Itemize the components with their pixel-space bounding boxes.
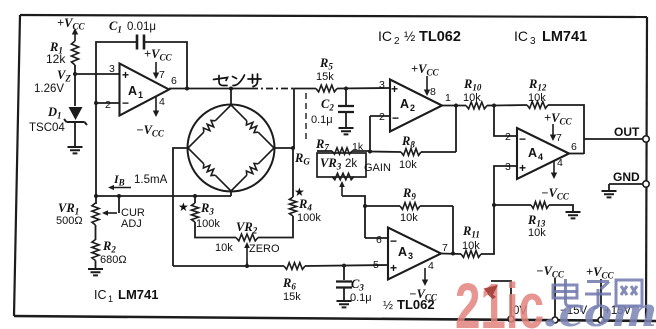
svg-text:8: 8 [430,86,436,98]
svg-text:1: 1 [138,90,143,100]
box RG around VR3 [317,153,366,177]
label Vz value [34,83,64,95]
svg-text:5: 5 [373,259,379,271]
label A3 [398,245,413,261]
pin 6 label A3 [376,234,397,248]
wire Vz to D1 [74,74,76,106]
op-amp A4 [517,128,569,179]
junction R13 tap [492,203,496,207]
svg-text:IC: IC [94,288,107,302]
wire R11 to A4 pin3 [481,166,517,254]
label A2 [400,97,415,113]
op-amp A2 [390,80,442,132]
resistor R7 [332,148,370,154]
wire R12 to A4 output [548,105,584,154]
label VR2 [215,220,280,255]
wire D1 to ground [74,123,76,147]
bridge circle [188,105,275,192]
wire R9 to A3 output [452,206,454,254]
wire bridge top stub [230,89,232,106]
svg-text:680Ω: 680Ω [100,254,127,266]
svg-text:500Ω: 500Ω [56,215,83,227]
label GAIN [364,162,391,174]
svg-text:100k: 100k [297,212,321,224]
svg-text:15k: 15k [316,71,334,83]
svg-text:2: 2 [410,103,415,113]
ground for GND [602,191,617,197]
label R1 [49,40,63,56]
resistor R1 [71,41,78,65]
node +15V [598,317,604,323]
wiper VR2 [244,242,250,266]
resistor R4 [289,197,296,216]
junction Ib rail / riser [94,194,98,198]
watermark glyph wang [616,280,642,306]
bridge arm bottom-left [188,148,231,191]
label -15V [560,305,588,317]
label R7 [315,137,364,153]
wire R13 left [494,204,531,206]
pin 2 label A1 [105,96,129,111]
junction gain node [368,150,372,154]
wire bridge right node [274,147,294,149]
ground for C2 [339,128,354,134]
resistor R9 [365,203,453,210]
svg-text:TL062: TL062 [397,297,435,312]
svg-text:100k: 100k [196,218,220,230]
resistor R11 [461,251,481,258]
svg-text:15k: 15k [283,291,301,303]
svg-text:10k: 10k [399,159,417,171]
svg-text:−: − [390,234,397,248]
power +Vcc top-left label [57,16,85,32]
pin 2 wire A1 [96,102,120,104]
wire A3 pin6 [365,237,388,239]
capacitor C1 [137,35,144,50]
wire OUT [584,138,643,140]
wire +Vcc drop [600,279,602,318]
node -15V [552,317,558,323]
junction C3 tap [342,264,346,268]
svg-text:0.1μ: 0.1μ [311,114,333,126]
node GND [643,181,649,187]
wiper VR3 [339,181,345,196]
label -Vcc bottom [536,264,565,280]
svg-text:10k: 10k [215,242,233,254]
pin 2 label A4 [505,131,526,146]
label R10 [463,77,482,104]
resistor R8 [370,149,456,156]
svg-text:½: ½ [383,298,393,312]
pin 2 wire A2 [370,115,390,117]
svg-text:4: 4 [538,152,543,162]
svg-text:7: 7 [442,242,448,254]
wire R13 to ground [549,205,573,212]
wire A1 output [169,88,251,90]
svg-text:3: 3 [109,63,115,75]
wire VR2 to R4 [258,216,293,238]
node 0V [508,316,514,322]
wire R1 to Vz node [74,65,76,74]
svg-text:10k: 10k [400,212,418,224]
wire Ib rail [95,195,231,197]
svg-text:4: 4 [557,157,563,169]
wire sensor dash-dot [251,88,293,90]
junction VR2 wiper [245,264,249,268]
resistor R3 [191,203,198,222]
wire R5 to A2 pin3 [337,87,390,90]
wire -Vcc drop [554,278,556,318]
label VR3 [320,156,357,172]
junction R3 tap [193,194,197,198]
resistor R10 [466,102,487,109]
wire A1 pin2 feedback riser [96,42,136,103]
svg-text:6: 6 [571,141,577,153]
pin 7 label A3 [442,242,448,254]
bridge arm top-left [188,105,231,148]
svg-text:2k: 2k [345,158,357,170]
label R8 [399,134,417,171]
junction A1 pin2 [94,101,98,105]
svg-text:6: 6 [376,234,382,246]
svg-text:7: 7 [159,69,165,81]
resistor R5 [316,85,337,92]
potentiometer VR1 [92,203,99,225]
svg-text:10k: 10k [528,227,546,239]
label R4 [297,197,321,224]
bridge arm top-right [231,105,274,148]
label D1 [47,105,62,121]
label C3 [350,277,372,304]
wire junction to A4 pin2 [494,106,517,137]
ground for R2 [88,269,103,275]
wire R6 to A3 pin5 [305,265,388,266]
ground for C3 [337,301,352,307]
resistor R13 [531,202,549,209]
current arrow Ib [108,185,131,190]
svg-text:3: 3 [530,36,536,47]
svg-text:A: A [398,245,407,259]
wire bridge right riser [294,89,316,149]
pin 3 label A4 [505,161,526,175]
svg-text:7: 7 [556,132,562,144]
svg-text:3: 3 [379,79,385,91]
svg-text:2: 2 [505,131,511,143]
bridge arm bottom-right [231,148,274,191]
junction C1/output [185,87,189,91]
svg-text:3: 3 [408,251,413,261]
capacitor C2 [338,89,354,129]
svg-text:−: − [392,111,399,125]
label 0V [513,305,527,317]
capacitor C3 [336,266,352,301]
svg-text:A: A [528,146,537,160]
wire R8 to A2 output [455,106,457,153]
resistor R12 [527,102,548,109]
svg-text:21ic: 21ic [455,270,544,329]
ground for R13 [566,212,581,218]
label +Vcc bottom [586,265,614,281]
ground for D1 [68,147,83,153]
wire R12 left [494,104,527,107]
pin 4 -Vcc A1 [136,96,165,139]
label half TL062 [383,297,435,312]
pin 3 label A1 [109,63,129,82]
svg-text:1.26V: 1.26V [34,83,64,95]
wire GND [609,184,643,191]
pin 6 label A4 [571,141,577,153]
svg-text:+: + [122,68,129,82]
wire VR1 to R2 [95,225,97,240]
junction C2 tap [344,87,348,91]
svg-text:2: 2 [394,36,400,47]
label IC2 half TL062 [378,28,461,47]
svg-text:IC: IC [378,28,392,44]
svg-text:1k: 1k [352,141,364,153]
svg-text:0.1μ: 0.1μ [350,292,372,304]
svg-text:★: ★ [178,200,189,214]
label CUR ADJ [121,207,145,230]
wire C1 to output [145,42,187,89]
svg-text:−: − [122,96,129,110]
wire A4 output [569,153,584,155]
pin 4 -Vcc A3 [409,260,438,303]
wire +Vcc to R1 [72,28,78,41]
svg-text:½: ½ [404,29,415,44]
wire A2 out to R10 [442,105,466,107]
watermark dot-com [545,285,656,329]
svg-text:ZERO: ZERO [249,243,280,255]
wire VR3 wiper to R9 node [342,196,365,238]
svg-text:+: + [391,82,398,96]
wire bridge left node [173,148,188,266]
dash line RG indicator [305,93,307,142]
svg-text:1.5mA: 1.5mA [134,174,168,186]
svg-text:A: A [128,84,137,98]
svg-text:LM741: LM741 [542,29,587,45]
svg-text:LM741: LM741 [118,287,158,302]
svg-text:10k: 10k [528,92,546,104]
svg-text:ADJ: ADJ [121,218,142,230]
label IC1 LM741 [94,287,158,304]
star mark R4 [294,185,305,199]
wire R3 to VR2 [195,222,236,238]
label C2 [311,97,334,126]
wire A3 output [441,253,461,256]
wiper VR1 [102,194,121,216]
label R9 [400,186,418,224]
wire A1 pin2 to VR1 [95,103,97,204]
pin 1 label A2 [445,92,451,104]
pin 7 +Vcc A4 [544,111,572,144]
svg-text:.com: .com [545,285,656,329]
svg-text:1: 1 [108,294,113,304]
svg-text:A: A [400,97,409,111]
svg-text:4: 4 [428,260,434,272]
label sensor (katakana) [214,74,262,87]
svg-text:IC: IC [514,28,528,44]
junction A2 output [454,104,458,108]
junction R4 / bridge right [291,146,295,150]
svg-text:+: + [390,261,397,275]
node Vz [57,68,77,84]
svg-text:2: 2 [379,111,385,123]
label A1 [128,84,143,100]
junction A3 output [451,252,455,256]
svg-text:+: + [519,161,526,175]
label R1 value [46,52,66,66]
wire R3 top [194,196,196,203]
pin 6 label A1 [171,75,177,87]
wire A2 pin2 drop [369,116,371,151]
resistor R6 [284,263,305,270]
svg-text:10k: 10k [462,240,480,252]
label R13 [527,213,546,239]
svg-text:TL062: TL062 [419,29,461,45]
watermark glyph zi [585,282,611,309]
pin 4 -Vcc A4 [541,157,570,202]
svg-text:3: 3 [505,161,511,173]
wire R10 to junction [487,105,494,107]
wire bottom rail [173,265,284,267]
svg-text:12k: 12k [46,52,66,66]
junction R10/R12 [492,104,496,108]
svg-text:−: − [519,132,526,146]
label OUT [614,125,640,139]
label GND [613,170,640,184]
wire R4 top [292,148,294,197]
label R12 [528,77,547,104]
junction bridge top [229,87,233,91]
potentiometer VR3 [332,173,354,179]
svg-text:GND: GND [613,170,640,184]
label IC3 LM741 [514,28,587,47]
wire bridge bottom stub [230,191,232,196]
pin 5 label A3 [373,259,397,275]
wire R7 left [317,150,332,152]
op-amp A3 [388,228,441,280]
svg-text:TSC04: TSC04 [29,122,65,134]
wire R2 to ground [95,261,97,270]
pin 2 label A2 [379,111,399,125]
label R6 [282,276,301,303]
svg-text:OUT: OUT [614,125,640,139]
svg-text:GAIN: GAIN [364,162,391,174]
label A4 [528,146,543,162]
resistor R2 [92,240,99,261]
label D1 value [29,122,65,134]
svg-text:10k: 10k [463,92,481,104]
diode D1 (zener) [64,107,87,125]
label RG [294,151,310,167]
node OUT [643,136,649,142]
svg-text:1: 1 [445,92,451,104]
pin 3 wire A1 [75,73,120,75]
svg-text:4: 4 [159,96,165,108]
label VR1 [56,201,83,227]
potentiometer VR2 [236,234,258,241]
pin 3 label A2 [379,79,398,96]
wire 0V stub [491,281,511,316]
watermark 21ic [455,270,544,329]
op-amp A1 [120,64,170,116]
label C1 [109,19,156,35]
svg-text:2: 2 [105,99,111,111]
label R2 [100,239,127,266]
label Ib [113,172,168,188]
star mark R3 [178,200,189,214]
watermark red arrow [484,285,499,299]
pin 7 +Vcc A1 [144,47,172,81]
label +15V [604,305,632,317]
watermark glyph dian [553,279,579,306]
label R11 [462,224,480,252]
label R3 [196,201,220,230]
svg-text:0.01μ: 0.01μ [127,21,156,33]
svg-text:6: 6 [171,75,177,87]
pin 8 +Vcc A2 [411,62,439,98]
label R5 [316,56,334,83]
junction R9 tap [363,204,367,208]
